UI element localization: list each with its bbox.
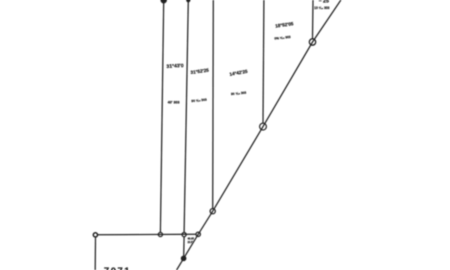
node open circle corner [93, 233, 97, 237]
node open circle line5/diagonal [309, 39, 315, 45]
svg-text:31°52'25: 31°52'25 [190, 67, 209, 75]
svg-text:31°43'0: 31°43'0 [166, 63, 184, 70]
wire lot line 5 [312, 0, 315, 39]
wire lot line 2 lower stub to diagonal [183, 237, 185, 257]
svg-text:22.5': 22.5' [187, 240, 193, 244]
svg-text:10 ⁷⁄₁₀ 303: 10 ⁷⁄₁₀ 303 [314, 6, 329, 10]
wire lot line 3 [212, 0, 215, 209]
node open circle line3/diagonal [210, 209, 215, 214]
svg-text:– 25: – 25 [319, 0, 329, 4]
svg-text:0% ⁷⁄₁₀ 303: 0% ⁷⁄₁₀ 303 [274, 35, 291, 41]
node open circle street/diagonal [196, 232, 200, 236]
wire lot line 2 [184, 1, 188, 233]
node open circle line1/street [158, 232, 162, 236]
wire left boundary vertical [94, 237, 96, 270]
svg-text:14°42'25: 14°42'25 [229, 69, 248, 77]
wire lot line 1 [160, 1, 163, 232]
svg-text:90 ⁷⁄₁₀ 303: 90 ⁷⁄₁₀ 303 [191, 98, 207, 104]
svg-text:90 ⁷⁄₁₀ 303: 90 ⁷⁄₁₀ 303 [231, 91, 247, 97]
wire horizontal street line [98, 233, 197, 236]
wire diagonal road boundary [177, 0, 341, 270]
node open circle line4/diagonal [260, 123, 267, 130]
svg-text:7071: 7071 [104, 266, 131, 270]
wire lot line 4 [262, 0, 265, 123]
node open circle line2/street [182, 233, 186, 237]
svg-text:40' 303: 40' 303 [168, 101, 180, 105]
node filled circle lower diagonal [181, 256, 185, 260]
node dot top of lot line 2 [187, 0, 190, 2]
svg-text:18°52'05: 18°52'05 [275, 21, 294, 29]
node dot top of lot line 1 [161, 0, 166, 3]
